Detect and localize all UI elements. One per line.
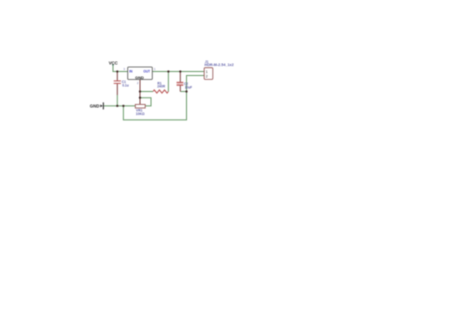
svg-text:GND: GND — [90, 103, 100, 108]
svg-text:1: 1 — [154, 67, 156, 71]
svg-text:240R: 240R — [157, 85, 166, 89]
svg-text:10uF: 10uF — [185, 86, 192, 90]
svg-text:10KΩ: 10KΩ — [136, 112, 145, 116]
svg-text:2: 2 — [137, 81, 139, 85]
svg-text:HDR-M-2.54_1x2: HDR-M-2.54_1x2 — [205, 63, 234, 67]
svg-text:OUT: OUT — [143, 69, 150, 73]
svg-text:2: 2 — [206, 75, 208, 79]
svg-text:0.1u: 0.1u — [122, 83, 129, 87]
svg-text:GND: GND — [135, 75, 144, 80]
svg-text:3: 3 — [123, 67, 125, 71]
